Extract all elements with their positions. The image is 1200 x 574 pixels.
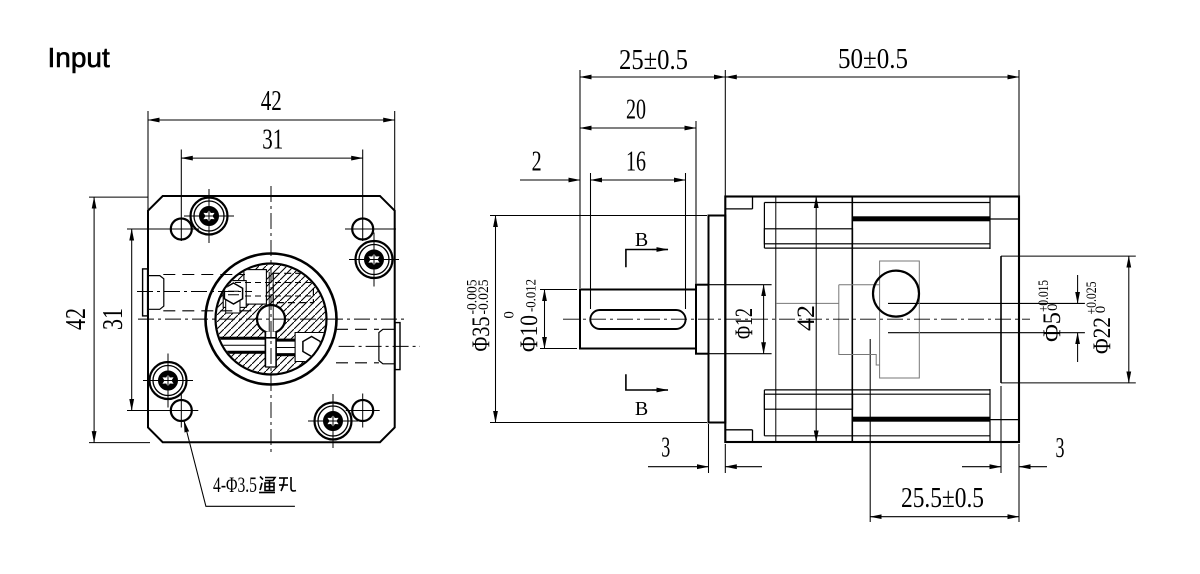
svg-text:Φ22: Φ22 xyxy=(1089,317,1116,354)
svg-text:Φ10: Φ10 xyxy=(516,315,543,352)
svg-text:-0.005: -0.005 xyxy=(465,280,481,315)
svg-text:0: 0 xyxy=(1093,306,1109,314)
svg-text:Φ35: Φ35 xyxy=(468,317,495,352)
svg-text:Φ5: Φ5 xyxy=(1039,312,1066,342)
svg-text:16: 16 xyxy=(626,147,646,178)
svg-text:42: 42 xyxy=(793,305,820,331)
svg-text:Input: Input xyxy=(48,42,110,73)
svg-text:50±0.5: 50±0.5 xyxy=(838,44,908,75)
svg-text:42: 42 xyxy=(261,86,282,117)
svg-text:25±0.5: 25±0.5 xyxy=(619,45,688,76)
svg-text:2: 2 xyxy=(532,147,542,178)
svg-text:B: B xyxy=(635,398,648,420)
svg-text:B: B xyxy=(635,229,648,251)
svg-text:31: 31 xyxy=(98,308,129,330)
svg-text:Φ12: Φ12 xyxy=(731,308,758,339)
svg-text:31: 31 xyxy=(262,125,283,156)
svg-text:42: 42 xyxy=(61,308,92,330)
svg-text:3: 3 xyxy=(1056,433,1065,464)
svg-text:0: 0 xyxy=(1045,304,1061,312)
svg-text:-0.012: -0.012 xyxy=(524,279,540,312)
svg-text:3: 3 xyxy=(661,433,670,464)
svg-text:25.5±0.5: 25.5±0.5 xyxy=(901,483,984,514)
svg-text:20: 20 xyxy=(626,95,646,126)
svg-text:0: 0 xyxy=(502,311,518,319)
svg-text:4-Φ3.5: 4-Φ3.5 xyxy=(213,472,257,497)
